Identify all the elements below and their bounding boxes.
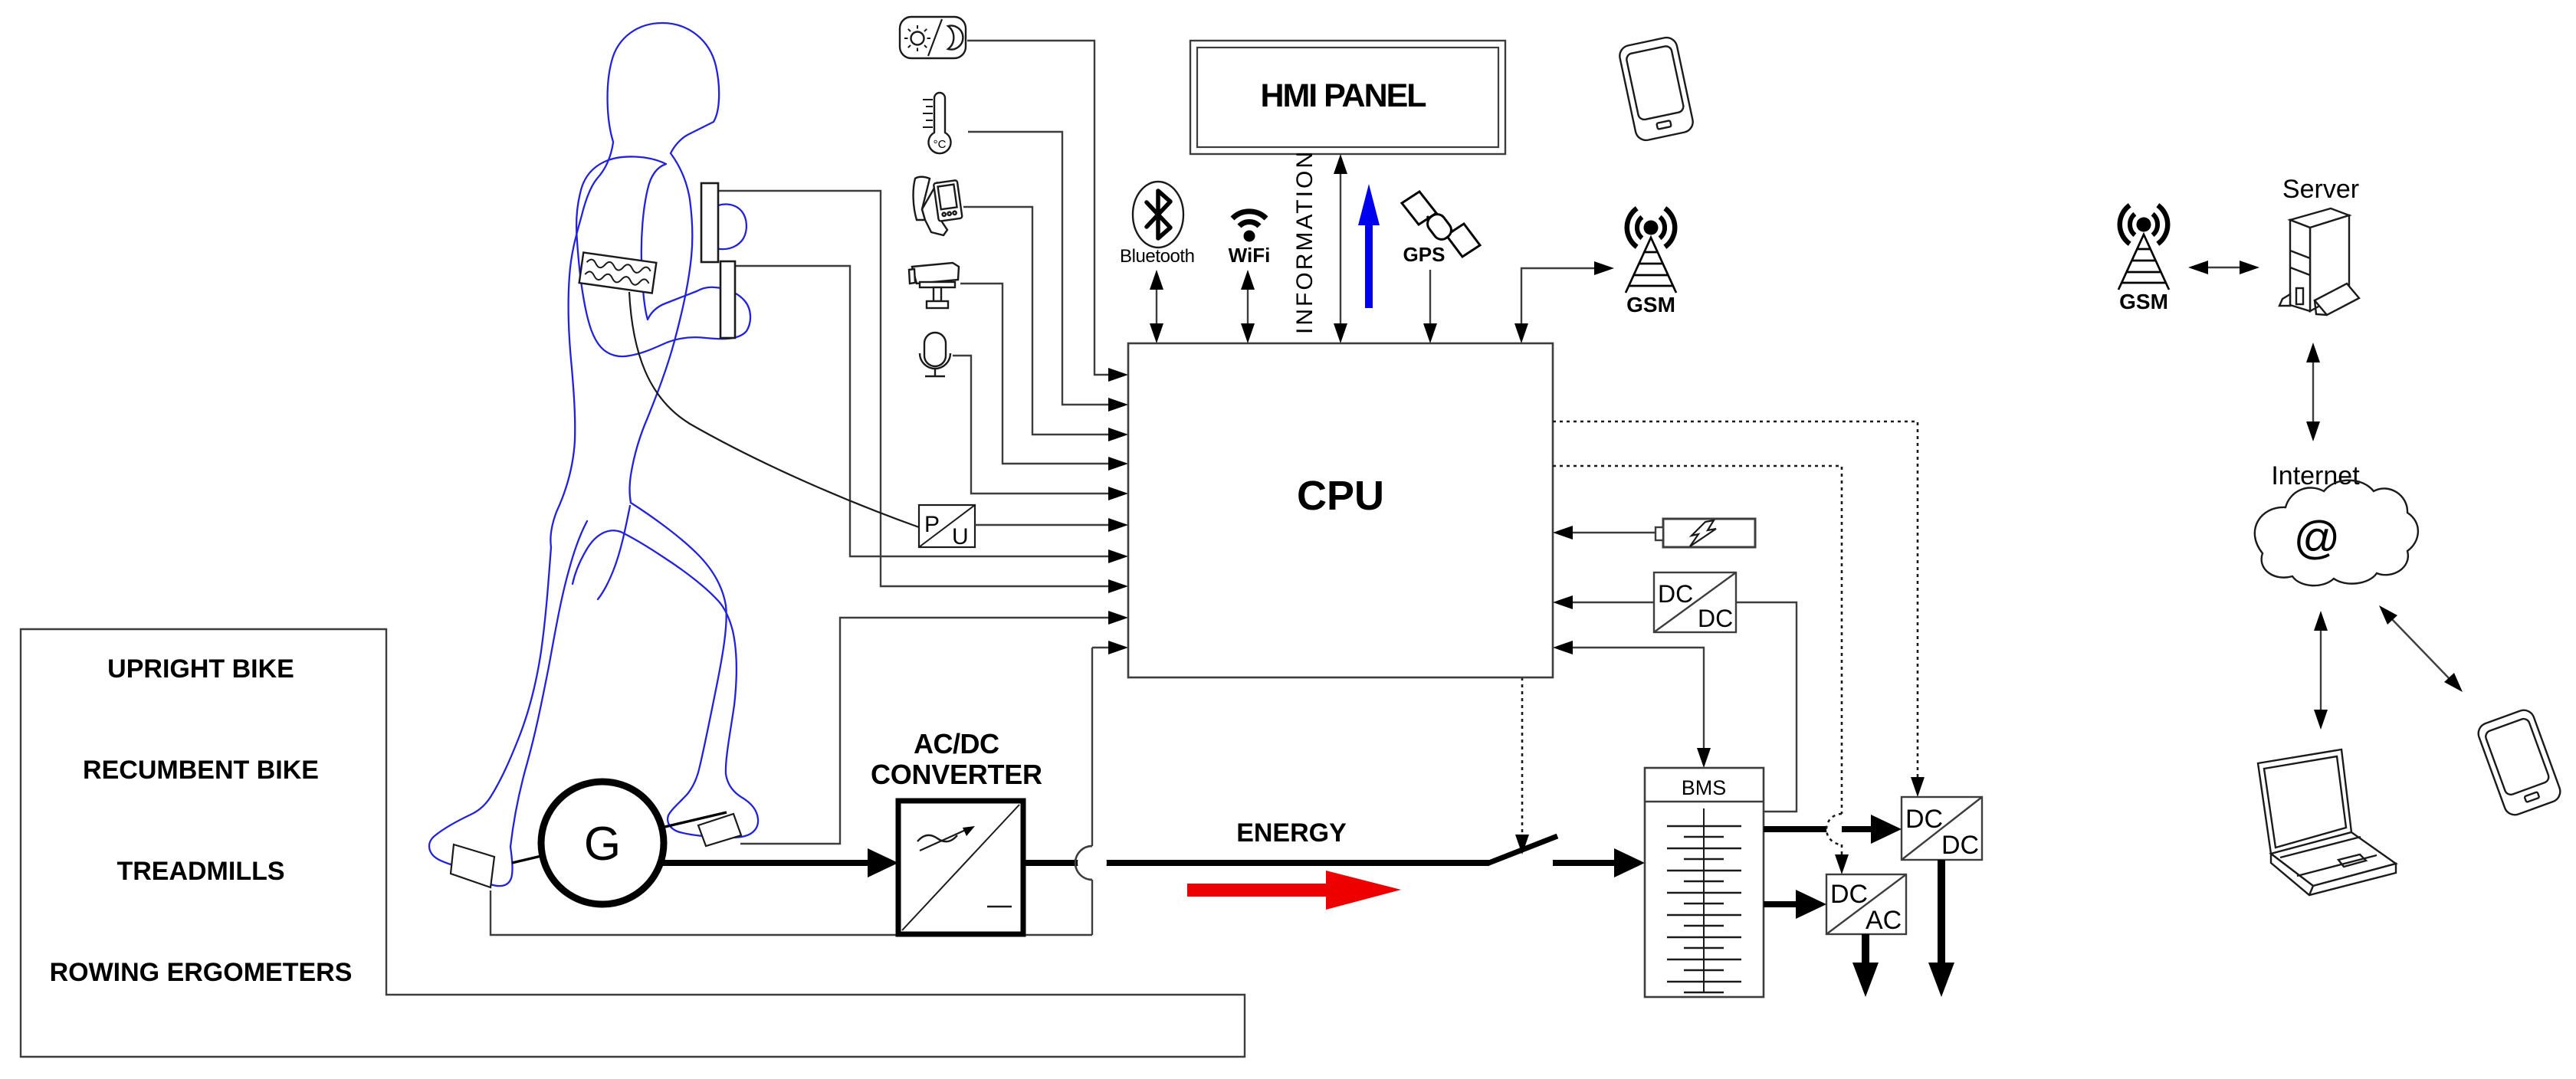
- svg-text:U: U: [952, 524, 969, 549]
- svg-text:DC: DC: [1905, 805, 1943, 834]
- svg-text:Bluetooth: Bluetooth: [1120, 246, 1195, 267]
- svg-text:CPU: CPU: [1297, 473, 1384, 519]
- svg-text:G: G: [584, 818, 621, 871]
- svg-text:DC: DC: [1698, 605, 1733, 632]
- svg-text:@: @: [2294, 512, 2341, 563]
- svg-text:AC: AC: [1866, 906, 1902, 935]
- svg-text:RECUMBENT BIKE: RECUMBENT BIKE: [83, 756, 319, 785]
- svg-text:DC: DC: [1941, 831, 1979, 860]
- svg-text:Internet: Internet: [2271, 461, 2360, 490]
- svg-text:HMI PANEL: HMI PANEL: [1261, 77, 1427, 114]
- svg-text:BMS: BMS: [1682, 776, 1727, 799]
- svg-text:P: P: [924, 512, 940, 537]
- svg-text:GPS: GPS: [1403, 243, 1446, 266]
- svg-text:INFORMATION: INFORMATION: [1292, 152, 1318, 334]
- svg-text:Server: Server: [2282, 175, 2359, 204]
- svg-text:ENERGY: ENERGY: [1236, 818, 1347, 848]
- svg-text:DC: DC: [1658, 580, 1693, 608]
- svg-text:CONVERTER: CONVERTER: [871, 759, 1042, 790]
- svg-text:°C: °C: [934, 138, 947, 151]
- svg-text:AC/DC: AC/DC: [914, 728, 999, 759]
- svg-text:WiFi: WiFi: [1229, 244, 1271, 267]
- svg-text:ROWING ERGOMETERS: ROWING ERGOMETERS: [50, 958, 353, 987]
- svg-text:DC: DC: [1830, 880, 1868, 909]
- svg-text:UPRIGHT BIKE: UPRIGHT BIKE: [107, 654, 294, 684]
- svg-text:TREADMILLS: TREADMILLS: [116, 857, 284, 886]
